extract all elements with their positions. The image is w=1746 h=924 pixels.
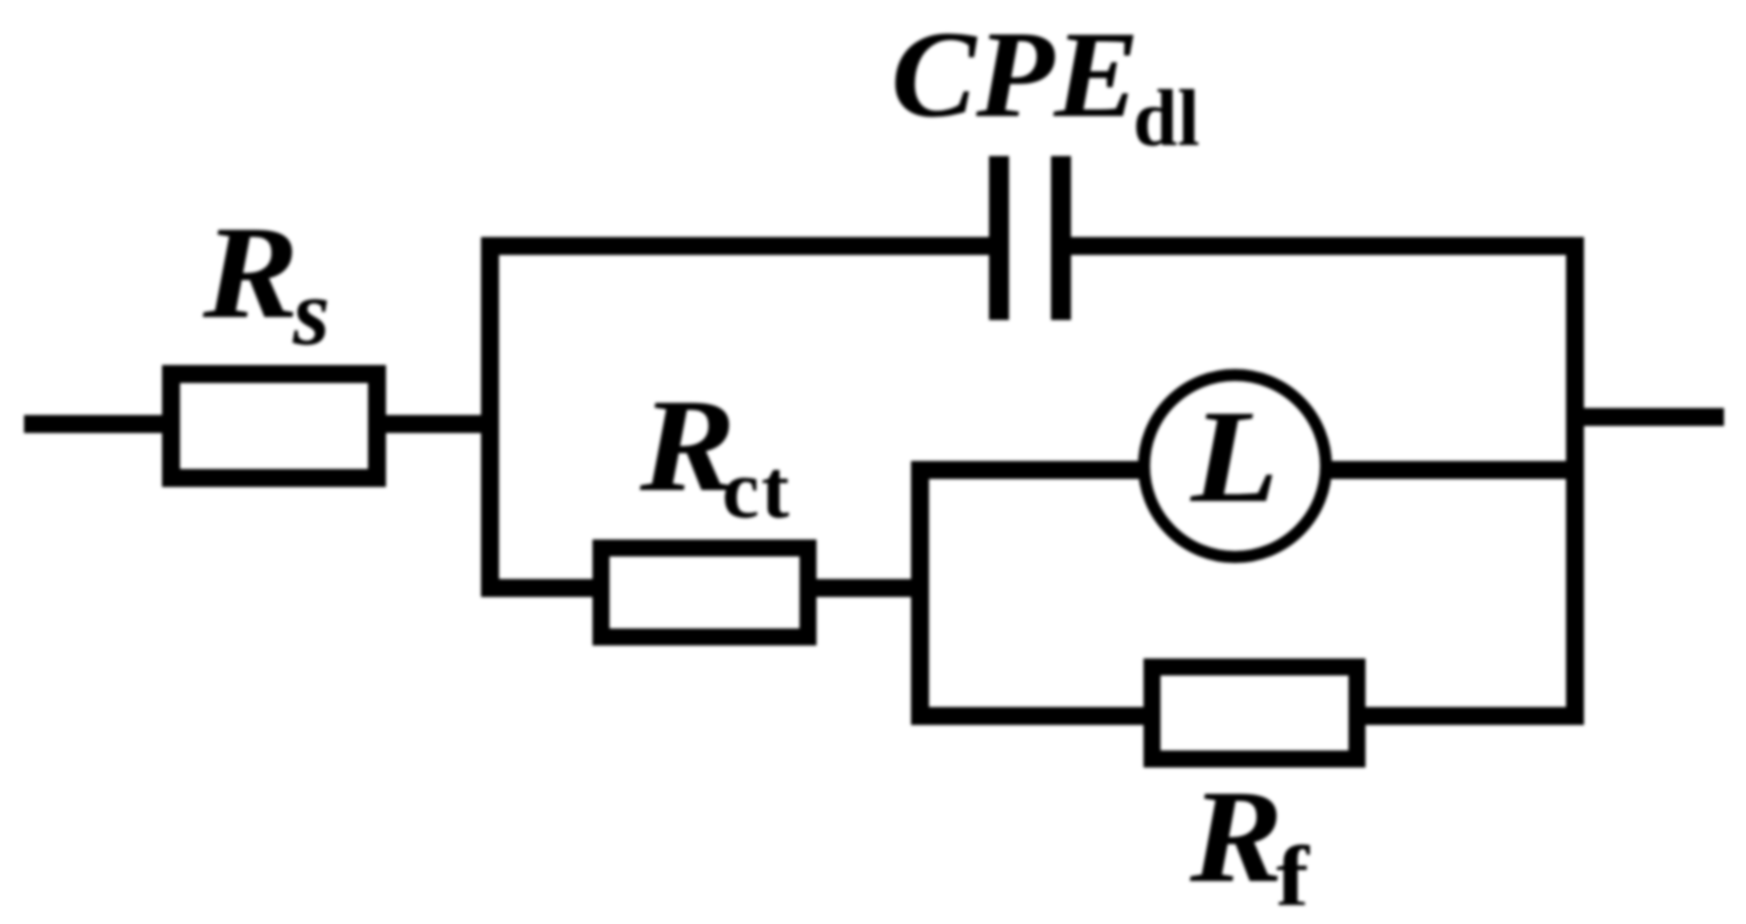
wire: bottom horizontal of inner loop, left segment [911, 707, 1152, 725]
svg-text:ct: ct [722, 443, 791, 536]
wire: left vertical of outer parallel loop + top-left horizontal [490, 246, 999, 588]
wire: left vertical of inner loop + top horizontal through L [920, 470, 1575, 716]
wire: top-right horizontal + right vertical of outer loop [1061, 246, 1575, 716]
resistor Rs [171, 374, 377, 478]
svg-text:dl: dl [1133, 75, 1200, 163]
svg-text:L: L [1189, 383, 1279, 530]
wire: bottom horizontal of inner loop, right segment [1357, 707, 1584, 725]
wire: Rct to inner loop [808, 579, 929, 597]
svg-text:R: R [1189, 763, 1283, 910]
wire: bottom-left horizontal of outer loop [481, 579, 612, 597]
capacitor CPEdl right plate [1051, 156, 1071, 320]
inductor L [1144, 375, 1326, 557]
svg-text:s: s [292, 259, 330, 365]
capacitor CPEdl left plate [989, 156, 1009, 320]
svg-text:R: R [202, 199, 299, 346]
wire: Rs to node A [377, 415, 499, 433]
svg-text:CPE: CPE [891, 7, 1139, 144]
resistor Rf [1152, 667, 1357, 759]
wire: left input lead [24, 415, 171, 433]
svg-text:f: f [1276, 829, 1310, 924]
wire: right output lead [1575, 408, 1724, 426]
resistor Rct [601, 548, 808, 637]
